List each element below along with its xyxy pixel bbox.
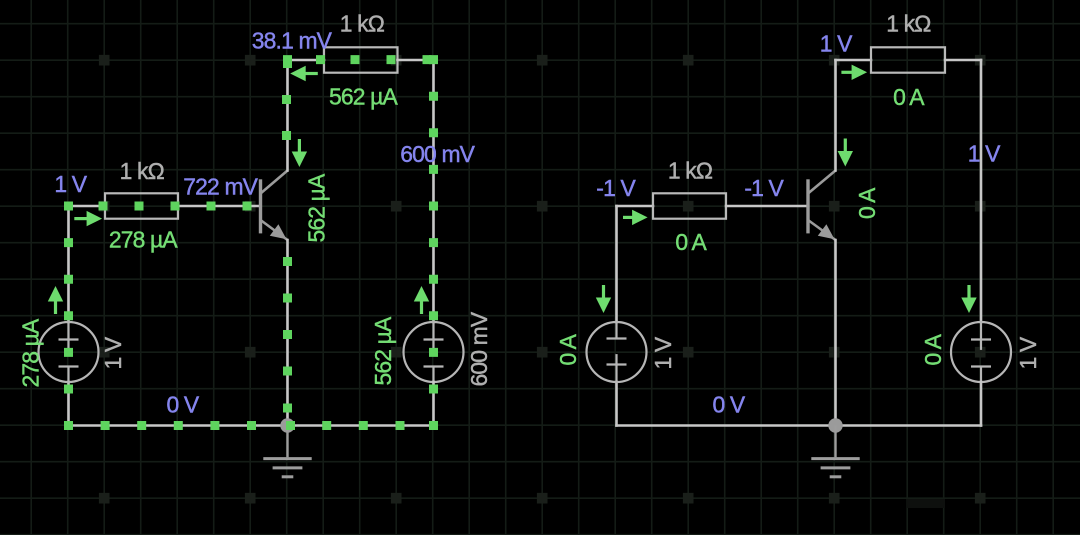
wire V4 bottom lead <box>980 382 983 426</box>
label node 0 V (right circuit) <box>713 392 746 418</box>
node junction at ground (left circuit) <box>280 418 294 432</box>
svg-text:38.1 mV: 38.1 mV <box>252 28 333 54</box>
current dots top resistor run <box>283 55 432 64</box>
resistor R2 1 kOhm (top) <box>324 47 398 72</box>
current arrow down at V4 <box>961 285 976 313</box>
label node 1 V <box>54 171 87 197</box>
label V2 current 562 uA (vertical) <box>370 316 396 385</box>
wire R3 to Q2 base (node -1 V) <box>726 205 807 208</box>
wire bottom rail right (right circuit node 0 V) <box>836 424 982 427</box>
svg-text:0 V: 0 V <box>713 392 746 418</box>
current dots emitter wire <box>283 257 292 413</box>
label R2 value 1 kOhm <box>340 11 385 37</box>
voltage source V4 1 V <box>951 322 1011 382</box>
resistor R4 1 kOhm (top right) <box>871 47 945 72</box>
wire Q1 collector to node 38.1 mV <box>286 60 289 171</box>
svg-text:600 mV: 600 mV <box>400 141 475 167</box>
wire V1 bottom lead <box>67 382 70 426</box>
label node 1 V (right branch) <box>968 141 1001 167</box>
svg-text:562 µA: 562 µA <box>370 316 396 385</box>
wire R4 to right corner <box>945 59 981 62</box>
label R2 current 562 uA <box>329 84 398 110</box>
svg-text:562 µA: 562 µA <box>304 173 330 242</box>
label R1 value 1 kOhm <box>120 158 165 184</box>
label V1 value 1 V (vertical) <box>100 336 126 369</box>
svg-text:1 kΩ: 1 kΩ <box>886 11 931 37</box>
svg-text:1 V: 1 V <box>650 336 676 369</box>
label V4 current 0 A (vertical) <box>920 333 946 365</box>
svg-text:0 A: 0 A <box>854 187 880 219</box>
current arrow up at V2 <box>414 286 429 314</box>
ground G2 <box>811 426 859 477</box>
current arrow right at R4 <box>841 65 867 80</box>
wire V3 bottom lead <box>615 382 618 426</box>
label node 1 V (top) <box>820 31 853 57</box>
label R3 current 0 A <box>675 229 707 255</box>
voltage source V3 1 V (inverted) <box>587 322 647 382</box>
current arrow down at V3 <box>596 285 611 313</box>
wire bottom rail right (node 0 V) <box>288 424 434 427</box>
svg-text:278 µA: 278 µA <box>109 227 178 253</box>
wire node 38.1mV to resistor R2 <box>288 59 325 62</box>
transistor Q1 NPN <box>261 171 288 241</box>
svg-text:0 A: 0 A <box>555 333 581 365</box>
svg-text:600 mV: 600 mV <box>466 311 492 386</box>
current dots V2 branch up <box>429 55 438 393</box>
label R4 current 0 A <box>893 84 925 110</box>
voltage source V1 1 V <box>39 322 99 382</box>
svg-text:1 V: 1 V <box>968 141 1001 167</box>
svg-text:-1 V: -1 V <box>596 175 636 201</box>
current dots V1 branch <box>64 202 73 394</box>
label Q1 emitter current 562 uA (vertical) <box>304 173 330 242</box>
current dots base wire <box>99 202 252 211</box>
svg-text:0 A: 0 A <box>675 229 707 255</box>
current arrow up at V1 <box>48 286 63 314</box>
label R3 value 1 kOhm <box>668 158 713 184</box>
label V2 value 600 mV (vertical) <box>466 311 492 386</box>
current dots bottom rail <box>64 421 438 430</box>
wire node 1V top to resistor R4 <box>836 59 872 62</box>
label node 722 mV <box>183 174 258 200</box>
label Q2 emitter current 0 A (vertical) <box>854 187 880 219</box>
wire Q1 emitter down to rail <box>286 240 289 426</box>
current arrow down at Q2 collector <box>838 139 853 167</box>
resistor R3 1 kOhm <box>653 193 726 218</box>
current arrow down at collector <box>292 139 307 167</box>
svg-text:1 kΩ: 1 kΩ <box>120 158 165 184</box>
svg-text:1 V: 1 V <box>820 31 853 57</box>
wire Q2 emitter down to rail <box>834 240 837 426</box>
wire R2 to right branch corner <box>398 59 434 62</box>
label node 38.1 mV <box>252 28 333 54</box>
svg-text:0 A: 0 A <box>893 84 925 110</box>
svg-text:278 µA: 278 µA <box>18 318 44 387</box>
svg-text:1 kΩ: 1 kΩ <box>340 11 385 37</box>
label node -1 V (input) <box>596 175 636 201</box>
ground G1 <box>263 426 311 477</box>
svg-text:722 mV: 722 mV <box>183 174 258 200</box>
wire R1 to Q1 base (node 722 mV) <box>178 205 259 208</box>
current arrow right at R3 <box>623 210 648 225</box>
label R1 current 278 uA <box>109 227 178 253</box>
wire node 1V to resistor R1 <box>69 205 106 208</box>
svg-text:1 V: 1 V <box>1015 336 1041 369</box>
svg-text:0 A: 0 A <box>920 333 946 365</box>
wire right branch down to V4 <box>980 60 983 322</box>
wire bottom rail left (node 0 V) <box>69 424 288 427</box>
label V3 value 1 V (vertical) <box>650 336 676 369</box>
wire bottom rail left (right circuit node 0 V) <box>617 424 836 427</box>
label node 0 V (left circuit) <box>167 392 200 418</box>
transistor Q2 NPN <box>808 171 836 241</box>
svg-text:562 µA: 562 µA <box>329 84 398 110</box>
label node 600 mV <box>400 141 475 167</box>
wire right branch down to V2 (node 600 mV) <box>432 60 435 322</box>
wire V3 to R3 vertical segment <box>615 206 618 322</box>
svg-text:1 kΩ: 1 kΩ <box>668 158 713 184</box>
label V1 current 278 uA (vertical) <box>18 318 44 387</box>
resistor R1 1 kOhm <box>105 193 178 218</box>
node junction at ground (right circuit) <box>828 418 842 432</box>
svg-text:1 V: 1 V <box>54 171 87 197</box>
wire Q2 collector to node 1 V top <box>834 60 837 171</box>
svg-text:1 V: 1 V <box>100 336 126 369</box>
wire V2 bottom lead <box>432 382 435 426</box>
wire node -1V to resistor R3 <box>617 205 654 208</box>
label R4 value 1 kOhm <box>886 11 931 37</box>
current arrow right at base resistor <box>74 211 102 226</box>
label node -1 V (base) <box>744 175 784 201</box>
svg-text:-1 V: -1 V <box>744 175 784 201</box>
label V3 current 0 A (vertical) <box>555 333 581 365</box>
svg-text:0 V: 0 V <box>167 392 200 418</box>
current dots collector wire <box>282 59 292 140</box>
label V4 value 1 V (vertical) <box>1015 336 1041 369</box>
voltage source V2 600 mV <box>404 322 464 382</box>
current arrow left at R2 <box>290 66 318 81</box>
wire V1-to-R1 vertical segment <box>67 206 70 322</box>
